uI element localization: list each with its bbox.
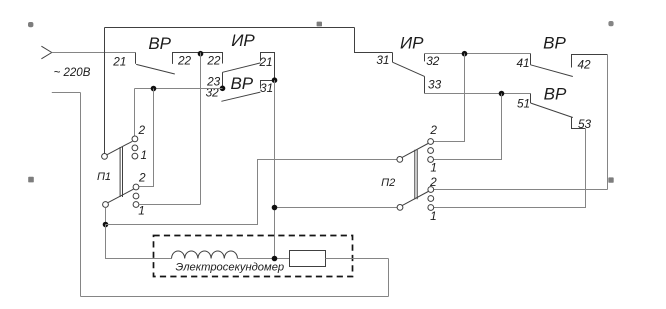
svg-text:1: 1 bbox=[430, 209, 437, 223]
relay P1 group1 contact 2 bbox=[132, 136, 138, 142]
handle top-middle bbox=[317, 22, 322, 27]
svg-text:33: 33 bbox=[428, 77, 442, 91]
wire P1 group2 pivot down bbox=[105, 207, 107, 224]
svg-text:П1: П1 bbox=[97, 171, 111, 183]
svg-text:31: 31 bbox=[260, 81, 273, 95]
switch IR 31-33 moving contact bbox=[393, 62, 425, 76]
wire right edge down from 42 bbox=[607, 55, 609, 190]
relay P1 group1 pivot bbox=[102, 154, 108, 160]
wire left vertical to P1 pivot bbox=[104, 28, 106, 154]
svg-text:32: 32 bbox=[426, 54, 440, 68]
contact BP terminal 21 corner bbox=[135, 53, 137, 64]
relay P2 group2 contact 1 bbox=[428, 205, 434, 211]
relay P2 group2 middle contact bbox=[428, 196, 434, 202]
node dot P2 pivot wire bbox=[272, 205, 278, 211]
relay P1 group2 pivot bbox=[103, 202, 109, 208]
wire P2 pivot bottom to node bbox=[275, 207, 398, 209]
wire P1 junction down to coil bbox=[106, 225, 172, 259]
wire input top to contact BP-21 bbox=[52, 52, 136, 54]
relay P1 group2 contact 2 bbox=[133, 184, 139, 190]
handle left-middle bbox=[28, 177, 34, 183]
relay P2 group2 moving arm bbox=[402, 192, 428, 206]
wire from node down to P1 group2 contact 2 bbox=[139, 89, 154, 187]
wire coil to resistor bbox=[238, 258, 290, 260]
wire resistor riser bbox=[388, 259, 390, 297]
svg-text:П2: П2 bbox=[381, 177, 395, 189]
wire top bus step down bbox=[355, 28, 393, 53]
wire top bus corner to IR 31 bbox=[392, 53, 394, 63]
node 22 junction dot bbox=[198, 51, 204, 57]
relay P1 group1 contact 1 bbox=[132, 153, 138, 159]
wire node down to P2 group1 contact 1 bbox=[434, 94, 502, 160]
relay P2 group2 contact 2 bbox=[428, 187, 434, 193]
svg-text:21: 21 bbox=[258, 55, 272, 69]
node P1 pivot junction dot bbox=[103, 222, 109, 228]
node 23 junction dot bbox=[220, 86, 226, 92]
svg-text:1: 1 bbox=[430, 160, 437, 174]
svg-text:22: 22 bbox=[177, 54, 192, 68]
switch BP 21-22 moving contact bbox=[136, 64, 175, 74]
relay P2 group2 pivot bbox=[397, 205, 403, 211]
resistor R bbox=[290, 251, 326, 267]
stem terminal 33 bbox=[424, 76, 426, 93]
switch BP 23-31 moving contact bbox=[221, 92, 260, 101]
electroseconds meter dashed box bbox=[154, 236, 353, 277]
svg-text:21: 21 bbox=[112, 55, 126, 69]
wire node down to P2 group1 contact 2 bbox=[434, 54, 465, 142]
node 31 junction dot bbox=[272, 77, 278, 83]
relay P1 mechanical link bbox=[120, 147, 122, 197]
svg-text:2: 2 bbox=[429, 175, 437, 189]
wire resistor to right riser bbox=[326, 258, 389, 260]
svg-text:~ 220В: ~ 220В bbox=[54, 67, 91, 79]
wire down to P1 contact 2 (group1) bbox=[134, 89, 136, 137]
relay P1 group2 moving arm bbox=[108, 189, 134, 203]
handle top-left bbox=[28, 22, 33, 27]
contact BP terminal 41 corner bbox=[530, 54, 532, 65]
svg-text:Электросекундомер: Электросекундомер bbox=[175, 262, 284, 274]
relay P2 group1 middle contact bbox=[428, 148, 434, 154]
bracket terminal 32 (IR) bbox=[424, 54, 426, 62]
handle top-right bbox=[608, 21, 613, 26]
relay P2 group1 contact 1 bbox=[428, 157, 434, 163]
relay P2 group1 moving arm bbox=[402, 144, 428, 158]
switch IR 22-21 moving contact bbox=[223, 63, 261, 72]
svg-text:32: 32 bbox=[206, 85, 220, 99]
svg-text:41: 41 bbox=[516, 56, 529, 70]
bracket terminal 53 bbox=[572, 118, 586, 129]
bracket terminal 31 (BP) bbox=[261, 81, 275, 89]
svg-text:1: 1 bbox=[138, 204, 145, 218]
relay P1 group2 contact 1 bbox=[133, 202, 139, 208]
wire from node 22 down to P1 contact 1 bbox=[200, 53, 202, 205]
wire top bus bbox=[105, 27, 355, 29]
svg-text:2: 2 bbox=[138, 170, 146, 184]
wire 23 horizontal bbox=[135, 88, 223, 90]
wire input bottom hook horizontal bbox=[52, 92, 81, 94]
svg-text:ВР: ВР bbox=[544, 85, 567, 104]
wire 53 down to P2 group2 contact 1 bbox=[434, 129, 586, 208]
relay P1 group2 middle contact bbox=[133, 193, 139, 199]
node dot on wire 32-41 bbox=[462, 51, 468, 57]
svg-text:ИР: ИР bbox=[231, 31, 255, 50]
handle right-middle bbox=[608, 177, 613, 182]
relay P2 group1 pivot bbox=[397, 157, 403, 163]
bracket terminal 42 bbox=[572, 55, 608, 68]
node dot at coil-resistor junction bbox=[272, 256, 278, 262]
svg-text:42: 42 bbox=[577, 58, 591, 72]
svg-text:31: 31 bbox=[376, 53, 389, 67]
svg-text:ВР: ВР bbox=[543, 34, 566, 53]
node junction dot on wire 23 bbox=[151, 86, 157, 92]
svg-text:53: 53 bbox=[578, 117, 592, 131]
bracket terminal 21 (IR) bbox=[261, 53, 275, 81]
wire P1 pivot to P2 pivot bbox=[106, 160, 397, 225]
node dot on wire 33-51 bbox=[499, 91, 505, 97]
wire P1 group2 contact1 to riser bbox=[139, 204, 201, 206]
bracket terminals 22-22 bbox=[173, 53, 223, 64]
wire right edge to P2 group2 contact 2 bbox=[434, 189, 608, 191]
stem from moving contact to node 23 bbox=[222, 72, 224, 88]
svg-text:ВР: ВР bbox=[148, 34, 171, 53]
svg-text:22: 22 bbox=[206, 54, 221, 68]
wire left outer vertical bbox=[80, 93, 82, 297]
wire from node 31 down to electroseconds meter bbox=[274, 80, 276, 258]
wire 32 to 41 bbox=[425, 53, 531, 55]
wire bottom bus bbox=[81, 296, 389, 298]
relay P2 group1 contact 2 bbox=[428, 139, 434, 145]
contact BP terminal 51 corner bbox=[530, 94, 532, 104]
input arrow ~220V source terminal bbox=[41, 46, 51, 59]
switch BP 41-42 moving contact bbox=[531, 65, 573, 77]
svg-text:ВР: ВР bbox=[230, 74, 253, 93]
relay P1 group1 middle contact bbox=[132, 145, 138, 151]
svg-text:2: 2 bbox=[138, 123, 146, 137]
svg-text:51: 51 bbox=[517, 97, 530, 111]
svg-text:1: 1 bbox=[141, 148, 148, 162]
switch BP 51-53 moving contact bbox=[531, 103, 573, 118]
relay P2 mechanical link bbox=[415, 150, 417, 200]
wire 33 to 51 bbox=[425, 93, 531, 95]
svg-text:ИР: ИР bbox=[400, 33, 424, 52]
relay P1 group1 moving arm bbox=[107, 141, 133, 155]
svg-text:2: 2 bbox=[429, 123, 437, 137]
inductor coil L bbox=[172, 251, 238, 259]
